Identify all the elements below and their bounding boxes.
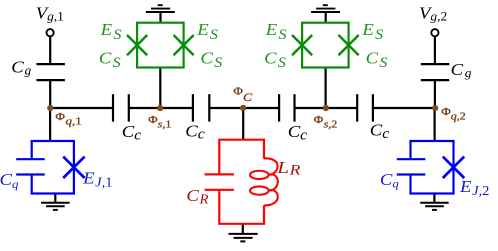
svg-text:EJ,1: EJ,1 (82, 168, 113, 190)
wire: Cg2 bottom plate to node PhiQ2 (434, 80, 436, 108)
resonator loop bottom branch (red) (219, 190, 264, 224)
capacitor Cc4 (357, 94, 373, 121)
SQUID1 loop (green box) (137, 23, 184, 68)
capacitor Cc3 (279, 94, 294, 121)
svg-text:Cq: Cq (0, 170, 18, 191)
svg-text:ES: ES (196, 20, 218, 43)
svg-text:Cq: Cq (380, 170, 399, 191)
svg-text:Φq,2: Φq,2 (441, 105, 466, 122)
terminal Vg1 open circle (47, 29, 54, 36)
svg-text:Vg,1: Vg,1 (36, 3, 64, 23)
terminal Vg2 open circle (431, 29, 438, 36)
SQUID1 left junction (green X) (127, 35, 147, 55)
wire: SQUID2 bottom stem to node PhiS2 (325, 68, 327, 109)
svg-text:EJ,2: EJ,2 (459, 177, 490, 199)
capacitor Cg1 (36, 64, 65, 80)
node PhiS1 (157, 105, 163, 111)
resonator loop top + left branch (red) (219, 140, 264, 175)
wire: main bus Cc4 right plate to node PhiQ2 (373, 107, 435, 109)
capacitor Cq2 (blue) (397, 159, 426, 174)
node PhiQ1 (47, 105, 53, 111)
svg-text:CS: CS (366, 48, 388, 71)
SQUID1 right junction (green X) (174, 35, 194, 55)
SQUID2 right junction (green X) (339, 35, 359, 55)
wire: node PhiQ1 down to qubit-1 loop top (49, 108, 51, 142)
svg-text:LR: LR (276, 159, 301, 178)
svg-text:Cc: Cc (122, 122, 142, 143)
wire: node PhiQ2 down to qubit-2 loop top (434, 108, 436, 142)
svg-text:Cg: Cg (11, 57, 32, 77)
svg-text:Cc: Cc (185, 121, 205, 142)
wire: terminal Vg1 down to Cg1 top plate (49, 36, 51, 64)
wire: SQUID2 top ground stem (325, 12, 327, 24)
wire: main bus Cc2 right plate to Cc3 left plate through node PhiC (209, 107, 279, 109)
svg-text:Vg,2: Vg,2 (419, 3, 447, 23)
inductor LR (red coil) (250, 158, 278, 205)
svg-text:Cc: Cc (288, 122, 308, 143)
node PhiQ2 (432, 105, 438, 111)
capacitor Cq1 (blue) (16, 159, 45, 174)
capacitor Cc1 (113, 94, 129, 121)
ground below qubit-1 (41, 203, 70, 210)
Josephson junction EJ1 (blue X) (63, 157, 84, 178)
Josephson junction EJ2 (blue X) (443, 157, 464, 178)
svg-text:ES: ES (100, 20, 122, 43)
svg-text:CS: CS (264, 48, 286, 71)
capacitor Cg2 (421, 64, 450, 80)
SQUID2 loop (green box) (302, 23, 349, 68)
capacitor CR (red) (205, 174, 234, 189)
ground below qubit-2 (420, 203, 449, 210)
ground below resonator (229, 234, 258, 242)
wire: qubit-1 ground stem (54, 194, 56, 203)
svg-text:Φq,1: Φq,1 (55, 110, 81, 127)
svg-text:Φs,2: Φs,2 (314, 113, 338, 130)
svg-text:ES: ES (265, 20, 287, 43)
svg-text:ES: ES (361, 20, 383, 43)
svg-text:Φs,1: Φs,1 (148, 113, 171, 130)
svg-text:ΦC: ΦC (233, 84, 252, 103)
wire: qubit-2 ground stem (433, 194, 435, 203)
svg-text:Cc: Cc (370, 120, 390, 141)
ground above SQUID2 (flipped) (311, 5, 340, 12)
wire: terminal Vg2 down to Cg2 top plate (434, 36, 436, 64)
ground above SQUID1 (flipped) (146, 5, 175, 12)
wire: main bus node PhiQ1 to Cc1 left plate (50, 107, 113, 109)
qubit-1 loop (blue) (32, 141, 74, 194)
wire: node PhiC down to resonator loop top (242, 108, 244, 141)
wire: SQUID1 bottom stem to node PhiS1 (159, 68, 161, 109)
wire: Cg1 bottom plate to node PhiQ1 (49, 80, 51, 108)
wire: resonator ground stem (242, 224, 244, 234)
svg-text:CS: CS (200, 48, 222, 71)
SQUID2 left junction (green X) (292, 35, 312, 55)
node PhiS2 (323, 105, 329, 111)
capacitor Cc2 (193, 94, 209, 121)
wire: main bus Cc3 right plate to Cc4 left plate through node PhiS2 (295, 107, 358, 109)
qubit-2 loop (blue) (411, 141, 454, 194)
svg-text:Cg: Cg (451, 60, 472, 80)
node PhiC (240, 105, 246, 111)
svg-text:CS: CS (99, 48, 121, 71)
wire: SQUID1 top ground stem (159, 12, 161, 24)
wire: main bus Cc1 right plate to Cc2 left plate through node PhiS1 (129, 107, 193, 109)
